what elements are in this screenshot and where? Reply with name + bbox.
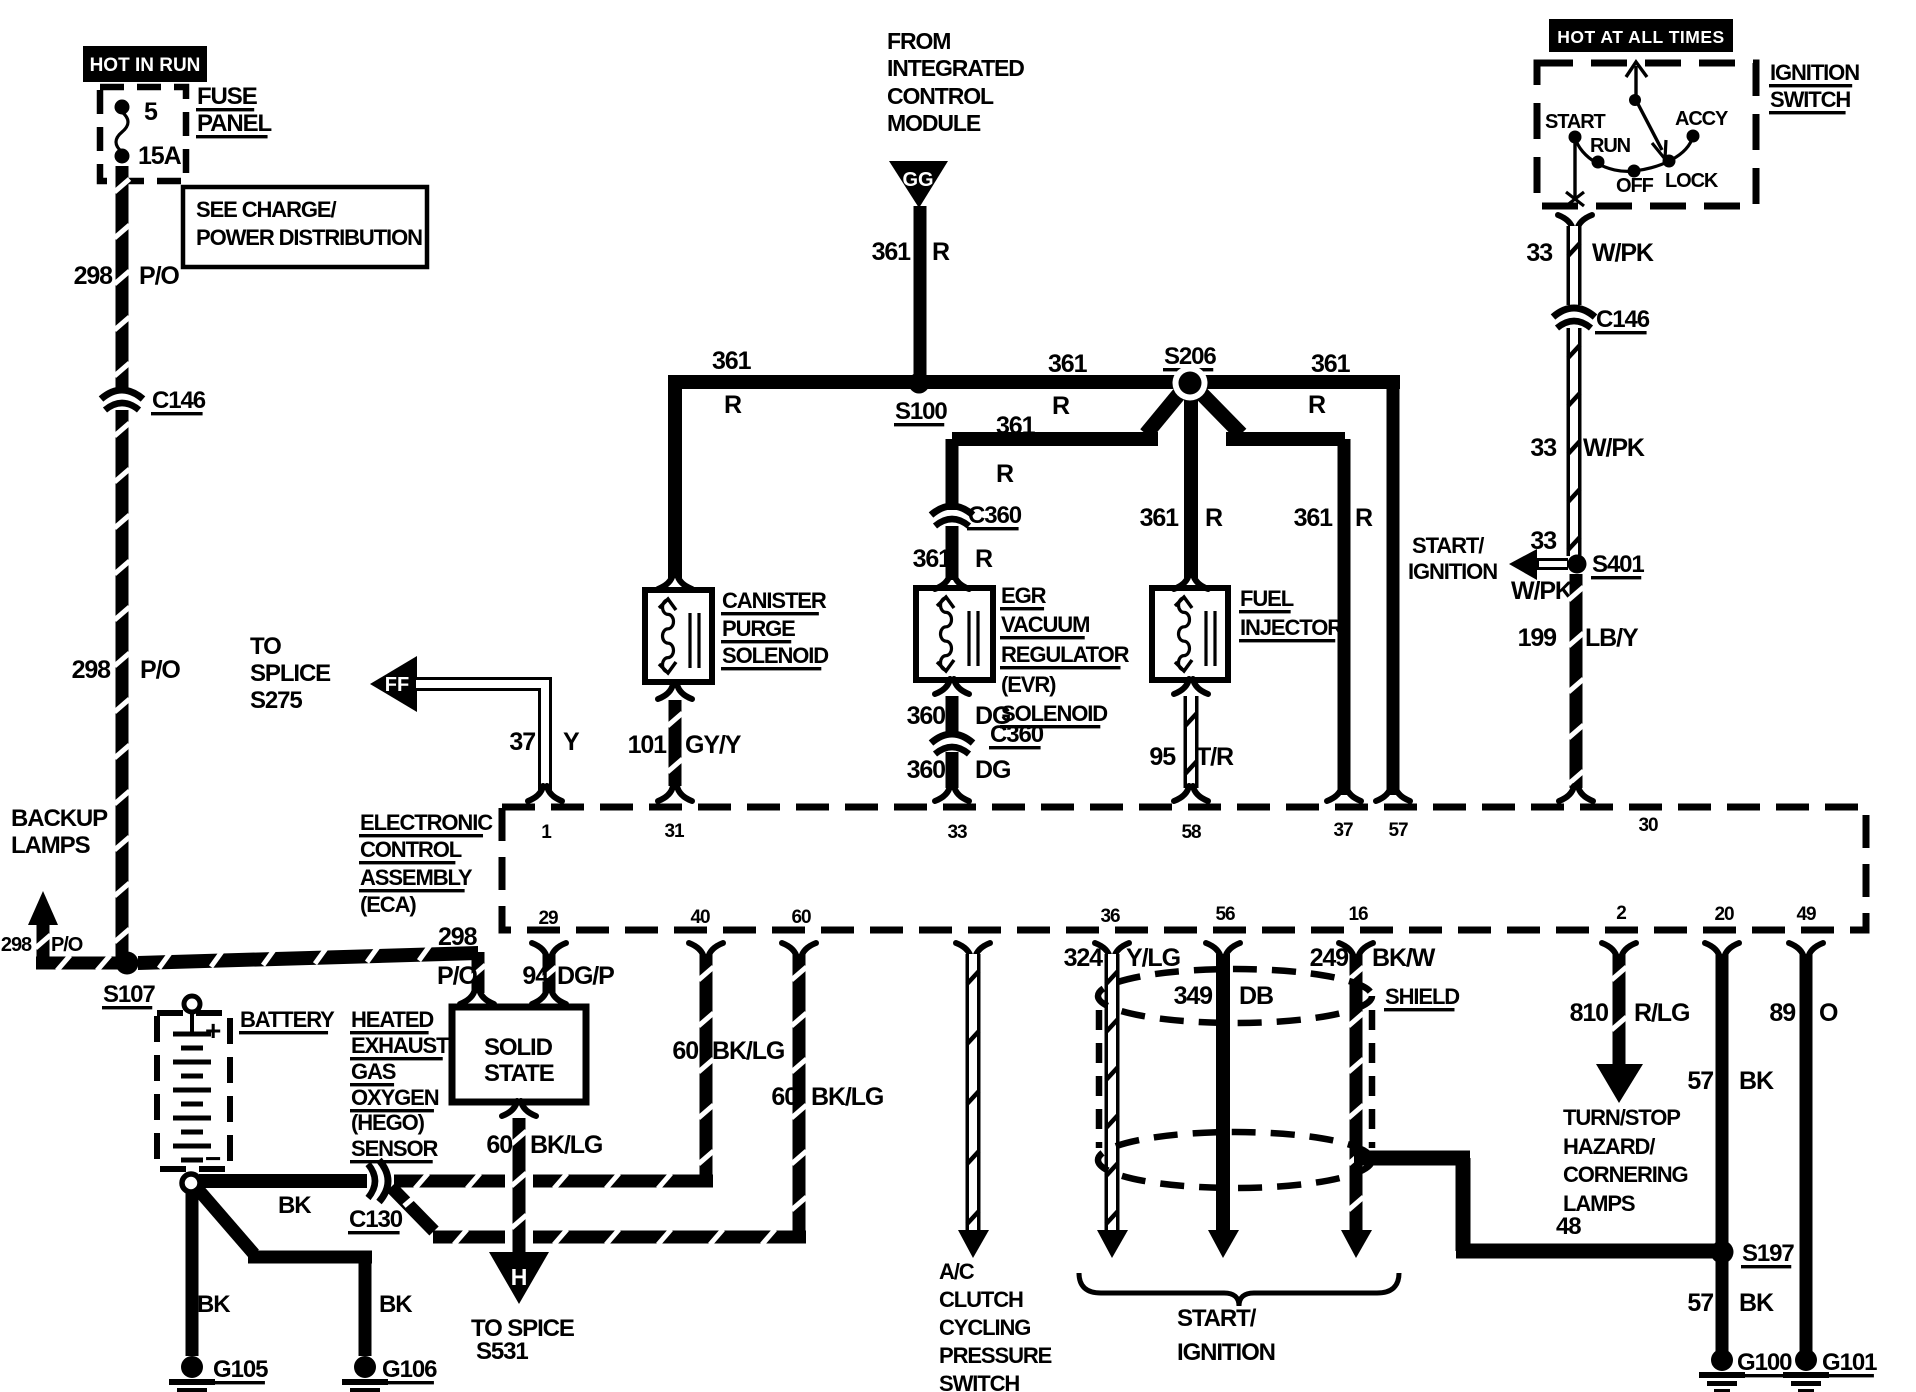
svg-text:57: 57 xyxy=(1389,820,1408,841)
wire 361 R S206 branch right diagonal xyxy=(1196,388,1241,434)
arrow to start/ignition xyxy=(1537,558,1568,570)
ignition switch box (dashed) xyxy=(1537,63,1756,206)
svg-text:BATTERY: BATTERY xyxy=(240,1007,335,1032)
svg-text:A/C: A/C xyxy=(939,1259,975,1284)
svg-text:P/O: P/O xyxy=(139,262,179,290)
bus wire 361 R (lower left) xyxy=(952,432,1158,446)
svg-text:Y: Y xyxy=(563,728,580,756)
svg-text:FUEL: FUEL xyxy=(1240,586,1294,611)
svg-text:TURN/STOP: TURN/STOP xyxy=(1563,1105,1680,1130)
svg-text:STATE: STATE xyxy=(484,1060,555,1087)
svg-text:2: 2 xyxy=(1616,903,1626,924)
svg-text:C360: C360 xyxy=(990,721,1044,748)
svg-text:GG: GG xyxy=(902,169,933,191)
svg-text:57: 57 xyxy=(1687,1067,1713,1095)
brace start/ignition group xyxy=(1079,1273,1399,1306)
wire 89 O ECA pin 49 to G101 xyxy=(1789,943,1823,958)
svg-text:361: 361 xyxy=(1311,350,1351,378)
svg-text:298: 298 xyxy=(72,656,112,684)
ignition switch rotor pivot xyxy=(1629,94,1641,106)
ignition switch position arc xyxy=(1575,136,1693,171)
wire 57 BK ECA pin 20 to S197 xyxy=(1705,943,1739,958)
svg-text:DB: DB xyxy=(1239,982,1273,1010)
fuel injector FI1 xyxy=(1174,574,1208,589)
svg-text:PURGE: PURGE xyxy=(722,616,795,641)
svg-text:IGNITION: IGNITION xyxy=(1408,559,1497,584)
svg-text:360: 360 xyxy=(907,702,946,730)
arrow to backup lamps xyxy=(28,891,58,925)
svg-text:S401: S401 xyxy=(1592,551,1644,578)
connector C360 (upper) xyxy=(945,510,960,519)
wire 361 R S206 to fuel injector xyxy=(1184,394,1198,578)
splice S107 xyxy=(116,952,139,975)
svg-text:O: O xyxy=(1819,999,1838,1027)
wire 360 DG EGR to C360 xyxy=(935,679,969,694)
wire 101 GY/Y canister to ECA pin 31 xyxy=(658,684,692,699)
contact LOCK xyxy=(1663,155,1676,168)
svg-text:GY/Y: GY/Y xyxy=(685,731,742,759)
svg-text:298: 298 xyxy=(438,923,478,951)
svg-text:C130: C130 xyxy=(349,1206,403,1233)
wire start fork (ignition output) xyxy=(1558,215,1592,230)
svg-text:T/R: T/R xyxy=(1196,743,1234,771)
wire 810 R/LG ECA pin 2 to lamps xyxy=(1602,943,1636,958)
svg-text:INTEGRATED: INTEGRATED xyxy=(887,55,1024,81)
svg-text:OFF: OFF xyxy=(1616,175,1654,197)
svg-text:94: 94 xyxy=(522,962,549,990)
svg-text:60: 60 xyxy=(486,1131,512,1159)
svg-text:SOLENOID: SOLENOID xyxy=(722,643,828,668)
wire 361 R from GG to S100 xyxy=(914,206,927,383)
svg-text:ACCY: ACCY xyxy=(1675,108,1729,130)
svg-text:+: + xyxy=(205,1015,221,1046)
splice S197 xyxy=(1711,1241,1734,1264)
wire 94 DG/P ECA pin 29 to solid state xyxy=(532,943,566,958)
off-page connector GG (from ICM) xyxy=(889,161,948,208)
svg-text:INJECTOR: INJECTOR xyxy=(1240,615,1343,640)
wire 361 R to ECA pin 37 xyxy=(1338,439,1351,795)
svg-text:361: 361 xyxy=(913,545,953,573)
svg-text:EGR: EGR xyxy=(1001,583,1047,608)
wire 298 P/O fuse to C146 xyxy=(116,166,129,390)
svg-text:S100: S100 xyxy=(895,398,947,425)
svg-text:SWITCH: SWITCH xyxy=(1770,87,1850,112)
ignition START output wire xyxy=(1573,143,1576,198)
svg-text:BK/LG: BK/LG xyxy=(530,1131,602,1159)
svg-text:199: 199 xyxy=(1518,624,1557,652)
svg-text:LOCK: LOCK xyxy=(1665,170,1719,192)
svg-text:SHIELD: SHIELD xyxy=(1385,984,1459,1009)
svg-text:Y/LG: Y/LG xyxy=(1126,944,1180,972)
off-page connector FF (to splice S275) xyxy=(370,656,417,712)
svg-text:ASSEMBLY: ASSEMBLY xyxy=(360,865,473,890)
wire 298 P/O to backup lamps xyxy=(37,922,50,957)
svg-text:P/O: P/O xyxy=(140,656,180,684)
wire 95 T/R fuel injector to ECA pin 58 xyxy=(1174,679,1208,694)
svg-text:LB/Y: LB/Y xyxy=(1585,624,1639,652)
wire BK battery to C130 xyxy=(199,1174,367,1188)
node battery negative xyxy=(182,1174,200,1192)
ground G100 xyxy=(1711,1349,1733,1371)
ground G101 xyxy=(1795,1349,1817,1371)
wire 361 R S206 branch left diagonal xyxy=(1146,388,1184,434)
svg-text:FROM: FROM xyxy=(887,28,950,54)
svg-text:CORNERING: CORNERING xyxy=(1563,1162,1688,1187)
svg-text:SOLID: SOLID xyxy=(484,1034,553,1061)
fuse F5 15A xyxy=(115,100,130,115)
ignition switch common arrow up xyxy=(1634,66,1637,97)
svg-text:C146: C146 xyxy=(1596,306,1650,333)
bus wire 361 R (top) xyxy=(668,375,1400,389)
svg-text:P/O: P/O xyxy=(51,934,83,956)
svg-text:DG/P: DG/P xyxy=(557,962,614,990)
svg-text:OXYGEN: OXYGEN xyxy=(351,1085,439,1110)
svg-text:G100: G100 xyxy=(1737,1349,1792,1376)
svg-text:GAS: GAS xyxy=(351,1059,396,1084)
svg-text:S275: S275 xyxy=(250,687,302,714)
svg-text:G106: G106 xyxy=(382,1356,437,1383)
svg-text:29: 29 xyxy=(539,908,558,929)
svg-text:15A: 15A xyxy=(138,142,182,170)
svg-text:LAMPS: LAMPS xyxy=(11,832,91,859)
svg-text:361: 361 xyxy=(712,347,752,375)
svg-text:R: R xyxy=(1355,504,1373,532)
svg-text:R: R xyxy=(996,460,1014,488)
svg-text:RUN: RUN xyxy=(1590,135,1631,157)
label HOT AT ALL TIMES (power tag) xyxy=(1549,19,1733,52)
contact START xyxy=(1569,131,1582,144)
svg-text:20: 20 xyxy=(1715,904,1734,925)
svg-text:60: 60 xyxy=(792,907,811,928)
wire 298 P/O S107 to solid state xyxy=(138,946,478,970)
svg-text:P/O: P/O xyxy=(437,962,477,990)
svg-text:36: 36 xyxy=(1101,906,1120,927)
svg-text:REGULATOR: REGULATOR xyxy=(1001,642,1130,667)
svg-text:PRESSURE: PRESSURE xyxy=(939,1343,1052,1368)
shield around start/ignition wires xyxy=(1098,969,1372,1023)
battery box (dashed) xyxy=(157,1013,230,1169)
splice S206 (ringed dot) xyxy=(1173,366,1208,401)
svg-text:30: 30 xyxy=(1639,815,1658,836)
ground G105 xyxy=(181,1356,203,1378)
svg-text:1: 1 xyxy=(541,822,552,843)
svg-text:MODULE: MODULE xyxy=(887,110,981,136)
svg-text:(HEGO): (HEGO) xyxy=(351,1110,425,1135)
svg-text:R: R xyxy=(724,391,742,419)
wire 349 DB ECA pin 56 xyxy=(1206,943,1240,958)
svg-text:361: 361 xyxy=(1048,350,1088,378)
svg-text:BK: BK xyxy=(197,1291,231,1318)
svg-text:60: 60 xyxy=(672,1037,698,1065)
svg-text:R: R xyxy=(932,238,950,266)
label HOT IN RUN (power tag) xyxy=(83,46,207,82)
svg-text:40: 40 xyxy=(691,907,710,928)
svg-text:298: 298 xyxy=(74,262,114,290)
svg-text:58: 58 xyxy=(1182,822,1201,843)
connector C146 (right) xyxy=(1567,312,1582,321)
wire 298 P/O entry to solid state xyxy=(460,989,494,1004)
wire 199 LB/Y S401 to ECA pin 30 xyxy=(1570,574,1583,788)
splice S401 xyxy=(1568,555,1587,574)
svg-text:49: 49 xyxy=(1797,904,1816,925)
wire 60 BK/LG C130 to ECA pin 40 xyxy=(394,1175,506,1188)
wire BK battery to G105 xyxy=(186,1190,199,1356)
svg-text:FF: FF xyxy=(385,674,409,696)
svg-text:G105: G105 xyxy=(213,1356,268,1383)
contact OFF xyxy=(1628,165,1641,178)
svg-text:360: 360 xyxy=(907,756,946,784)
svg-text:95: 95 xyxy=(1149,743,1176,771)
svg-text:HOT IN RUN: HOT IN RUN xyxy=(90,55,201,76)
svg-text:101: 101 xyxy=(628,731,668,759)
svg-text:89: 89 xyxy=(1769,999,1795,1027)
svg-text:361: 361 xyxy=(996,412,1036,440)
contact ACCY xyxy=(1687,130,1700,143)
svg-text:HAZARD/: HAZARD/ xyxy=(1563,1134,1655,1159)
svg-text:SENSOR: SENSOR xyxy=(351,1136,439,1161)
svg-text:BK: BK xyxy=(1739,1067,1774,1095)
svg-text:S197: S197 xyxy=(1742,1240,1794,1267)
svg-text:16: 16 xyxy=(1349,904,1368,925)
bus wire 361 R (lower right) xyxy=(1226,432,1345,446)
svg-text:SPLICE: SPLICE xyxy=(250,660,331,687)
wire 60 BK/LG solid state to splice S531 xyxy=(505,1140,533,1252)
svg-text:BK/LG: BK/LG xyxy=(811,1083,883,1111)
connector C360 (lower) xyxy=(945,738,960,747)
svg-text:HOT AT ALL TIMES: HOT AT ALL TIMES xyxy=(1557,27,1724,47)
svg-text:R: R xyxy=(1205,504,1223,532)
canister purge solenoid CP1 xyxy=(658,574,692,589)
svg-text:FUSE: FUSE xyxy=(197,83,258,110)
svg-text:CONTROL: CONTROL xyxy=(887,83,994,109)
svg-text:HEATED: HEATED xyxy=(351,1007,433,1032)
svg-text:361: 361 xyxy=(1294,504,1334,532)
svg-text:S107: S107 xyxy=(103,981,155,1008)
svg-text:(EVR): (EVR) xyxy=(1001,672,1056,697)
svg-text:W/PK: W/PK xyxy=(1511,577,1573,605)
svg-text:LAMPS: LAMPS xyxy=(1563,1191,1635,1216)
off-page connector H (to splice S531) xyxy=(489,1252,549,1304)
svg-text:BK/W: BK/W xyxy=(1372,944,1436,972)
electronic control assembly ECA (dashed box) xyxy=(502,807,1866,930)
svg-text:BK/LG: BK/LG xyxy=(712,1037,784,1065)
svg-text:CYCLING: CYCLING xyxy=(939,1315,1030,1340)
svg-text:R: R xyxy=(975,545,993,573)
svg-text:31: 31 xyxy=(665,821,685,842)
ground G106 xyxy=(354,1356,376,1378)
svg-text:W/PK: W/PK xyxy=(1583,434,1645,462)
svg-text:BK: BK xyxy=(379,1291,413,1318)
svg-text:CANISTER: CANISTER xyxy=(722,588,827,613)
svg-text:298: 298 xyxy=(1,934,32,956)
svg-text:37: 37 xyxy=(509,728,535,756)
svg-text:BK: BK xyxy=(1739,1289,1774,1317)
contact RUN xyxy=(1592,156,1605,169)
svg-text:IGNITION: IGNITION xyxy=(1770,60,1859,85)
wire 48 shield drain to S197 xyxy=(1354,1151,1470,1166)
svg-text:PANEL: PANEL xyxy=(197,110,271,137)
svg-text:37: 37 xyxy=(1334,820,1353,841)
svg-text:5: 5 xyxy=(144,98,158,126)
svg-text:SWITCH: SWITCH xyxy=(939,1371,1019,1392)
wire 249 BK/W ECA pin 16 xyxy=(1339,943,1373,958)
wire 324 Y/LG ECA pin 36 xyxy=(1095,943,1129,958)
svg-text:361: 361 xyxy=(1140,504,1180,532)
fuse panel box (dashed) xyxy=(100,87,186,181)
svg-text:C146: C146 xyxy=(152,387,206,414)
svg-text:W/PK: W/PK xyxy=(1592,239,1654,267)
battery B1 xyxy=(184,996,200,1012)
svg-text:33: 33 xyxy=(948,822,967,843)
ignition switch wiper to LOCK xyxy=(1638,104,1662,150)
svg-text:START/: START/ xyxy=(1177,1305,1257,1332)
svg-text:EXHAUST: EXHAUST xyxy=(351,1033,450,1058)
svg-text:CONTROL: CONTROL xyxy=(360,837,462,862)
svg-text:VACUUM: VACUUM xyxy=(1001,612,1089,637)
svg-text:810: 810 xyxy=(1570,999,1609,1027)
svg-text:H: H xyxy=(511,1264,528,1290)
wire 361 R C360 to EGR xyxy=(946,526,959,580)
wire BK battery to G106 xyxy=(196,1187,254,1254)
wire 298 P/O C146 to S107 xyxy=(116,410,129,957)
svg-text:(ECA): (ECA) xyxy=(360,892,416,917)
svg-text:324: 324 xyxy=(1064,944,1104,972)
EGR vacuum regulator solenoid EVR xyxy=(935,574,969,589)
svg-text:START/: START/ xyxy=(1412,533,1484,558)
wire 60 BK/LG branch to ECA pin 60 xyxy=(391,1187,434,1231)
svg-text:349: 349 xyxy=(1174,982,1213,1010)
wire 57 BK S197 to G100 xyxy=(1716,1252,1729,1356)
wire 361 R drop to canister purge xyxy=(668,382,682,578)
svg-text:IGNITION: IGNITION xyxy=(1177,1339,1275,1366)
svg-text:G101: G101 xyxy=(1822,1349,1877,1376)
svg-text:C360: C360 xyxy=(968,502,1022,529)
wire 37 Y FF to ECA pin 1 xyxy=(416,684,545,790)
svg-text:33: 33 xyxy=(1530,434,1556,462)
connector C130 xyxy=(376,1174,385,1189)
svg-text:BACKUP: BACKUP xyxy=(11,805,108,832)
svg-text:S531: S531 xyxy=(476,1338,528,1365)
svg-text:START: START xyxy=(1545,111,1606,133)
svg-text:SEE CHARGE/: SEE CHARGE/ xyxy=(196,197,336,222)
svg-text:60: 60 xyxy=(771,1083,797,1111)
svg-text:TO: TO xyxy=(250,633,281,660)
svg-text:POWER DISTRIBUTION: POWER DISTRIBUTION xyxy=(196,225,422,250)
wire 361 R drop to EGR xyxy=(946,439,959,512)
see charge note box xyxy=(183,187,427,267)
svg-text:56: 56 xyxy=(1216,904,1235,925)
svg-text:BK: BK xyxy=(278,1192,312,1219)
svg-text:CLUTCH: CLUTCH xyxy=(939,1287,1023,1312)
svg-text:R/LG: R/LG xyxy=(1634,999,1689,1027)
splice S100 xyxy=(909,373,930,394)
solid state module (HEGO) xyxy=(452,1007,586,1102)
svg-text:249: 249 xyxy=(1310,944,1349,972)
connector C146 (left) xyxy=(115,394,130,403)
wire 360 DG C360 to ECA pin 33 xyxy=(946,752,959,788)
svg-text:R: R xyxy=(1052,392,1070,420)
svg-text:−: − xyxy=(205,1143,221,1174)
svg-text:57: 57 xyxy=(1687,1289,1713,1317)
ECA pin57 entry xyxy=(1376,786,1410,801)
svg-text:48: 48 xyxy=(1556,1213,1581,1240)
svg-text:361: 361 xyxy=(872,238,912,266)
ECA pin37 entry xyxy=(1327,786,1361,801)
svg-text:DG: DG xyxy=(975,756,1010,784)
wire 361 R to ECA pin 57 xyxy=(1387,382,1400,795)
wire to A/C clutch cycling pressure switch xyxy=(956,943,990,958)
svg-text:33: 33 xyxy=(1526,239,1552,267)
svg-text:ELECTRONIC: ELECTRONIC xyxy=(360,810,493,835)
svg-text:R: R xyxy=(1308,391,1326,419)
wire 33 W/PK ignition to C146 xyxy=(1567,226,1582,305)
wire 33 W/PK C146 to S401 xyxy=(1567,328,1582,556)
